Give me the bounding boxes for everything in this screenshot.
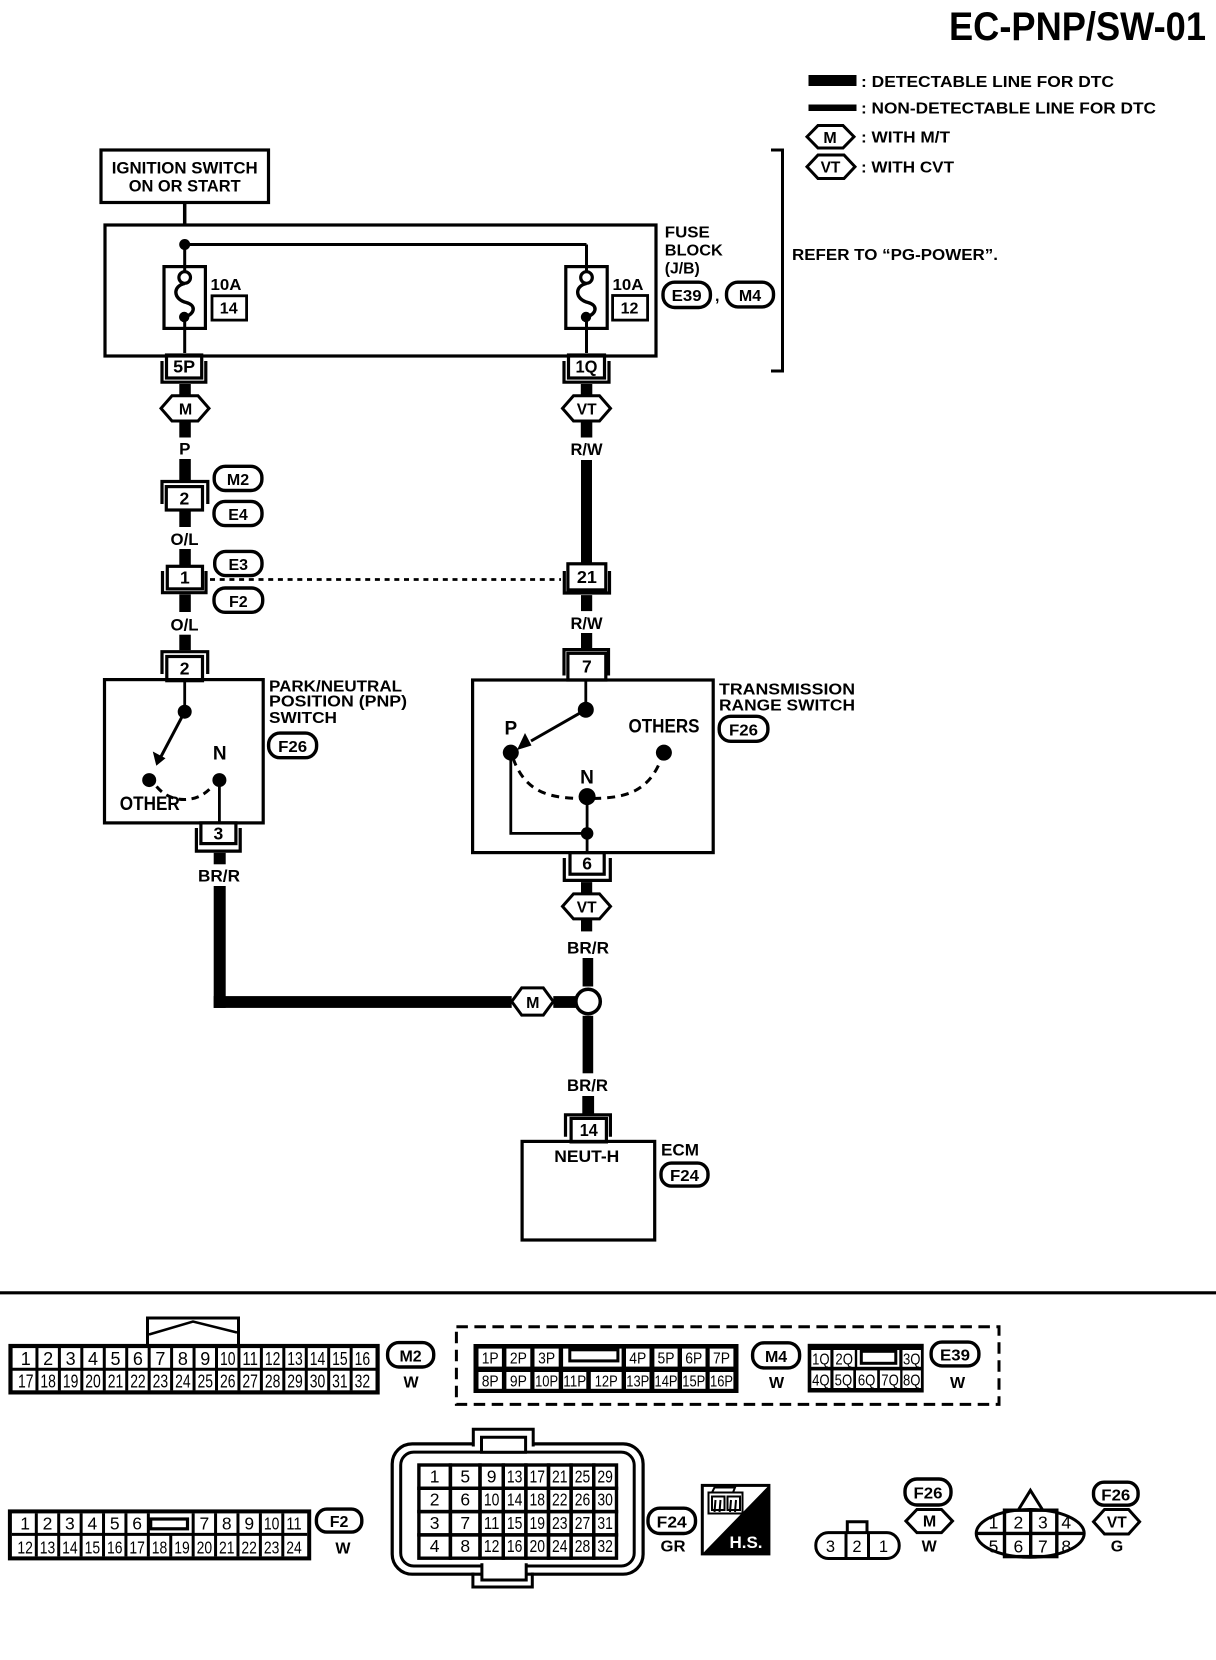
- wire color label R/W: [571, 440, 604, 459]
- svg-text:23: 23: [153, 1372, 169, 1392]
- wire stub below M hexagon: [179, 421, 191, 438]
- TRS contact P: [503, 745, 519, 761]
- connector view F26 (8-pin): keying triangle: [1018, 1490, 1043, 1510]
- svg-text:12P: 12P: [595, 1374, 618, 1391]
- svg-text:19: 19: [529, 1513, 545, 1533]
- connector id F24 oval (ECM): [661, 1163, 708, 1186]
- svg-text:,: ,: [715, 288, 719, 305]
- svg-text:2P: 2P: [510, 1351, 527, 1368]
- TRS contact OTHERS: [656, 745, 672, 761]
- PNP dashed travel arc: [157, 786, 213, 800]
- reference bracket: [771, 150, 783, 371]
- wire: R/W down to connector 21: [581, 460, 592, 564]
- svg-text:IGNITION SWITCH: IGNITION SWITCH: [112, 159, 258, 178]
- fuse 14 value label 10A: [211, 277, 242, 294]
- VT hexagon (with CVT) below connector 6: [563, 894, 611, 919]
- svg-text:R/W: R/W: [571, 614, 604, 633]
- ignition switch box: [101, 150, 269, 203]
- svg-text:11: 11: [242, 1349, 258, 1369]
- connector view F26 (8-pin): body: [976, 1510, 1084, 1558]
- svg-text:16: 16: [107, 1537, 123, 1557]
- svg-text:5: 5: [989, 1537, 999, 1557]
- svg-text:27: 27: [242, 1372, 258, 1392]
- VT hexagon (with CVT) on right wire: [563, 396, 611, 421]
- svg-text:13P: 13P: [626, 1374, 649, 1391]
- dashed link between connector 1 and connector 21: [210, 578, 561, 581]
- svg-text:W: W: [922, 1539, 938, 1556]
- PNP switch arm (arrow): [153, 712, 185, 766]
- fuse number box 12: [613, 296, 648, 321]
- svg-text:27: 27: [575, 1513, 591, 1533]
- svg-text:18: 18: [40, 1372, 56, 1392]
- connector id E4 oval: [214, 501, 262, 525]
- connector 14 (ECM pin): [566, 1115, 611, 1142]
- svg-text:(J/B): (J/B): [665, 261, 700, 278]
- svg-text:4: 4: [1061, 1513, 1071, 1533]
- svg-text:6: 6: [582, 853, 592, 873]
- svg-text:3Q: 3Q: [903, 1351, 921, 1368]
- wire: ignition switch to fuse block: [183, 203, 187, 227]
- svg-text:21: 21: [219, 1537, 235, 1557]
- svg-text:M2: M2: [399, 1349, 421, 1366]
- legend: with CVT text: [861, 160, 954, 177]
- M hexagon (3-pin view): [906, 1510, 953, 1533]
- connector view F24: pin grid: [419, 1465, 617, 1558]
- svg-text:23: 23: [264, 1537, 280, 1557]
- svg-text:32: 32: [597, 1536, 613, 1556]
- svg-text:25: 25: [575, 1466, 591, 1486]
- svg-text:6: 6: [460, 1490, 470, 1510]
- svg-text:15P: 15P: [682, 1374, 705, 1391]
- svg-text:4: 4: [430, 1536, 440, 1556]
- svg-text:8: 8: [460, 1536, 470, 1556]
- svg-text:3: 3: [214, 823, 224, 843]
- wire stub below connector 21: [581, 595, 592, 611]
- connector view F24: top tabs: [473, 1429, 533, 1452]
- svg-text:4: 4: [87, 1513, 97, 1533]
- legend: with M/T text: [861, 130, 950, 147]
- wire: BR/R to splice circle: [583, 958, 594, 987]
- svg-text:2: 2: [43, 1349, 53, 1369]
- svg-text:8: 8: [222, 1513, 232, 1533]
- harness side (H.S.) view icon: [702, 1485, 769, 1554]
- connector id E39 oval: [663, 282, 710, 307]
- svg-text:3: 3: [430, 1513, 440, 1533]
- transmission range switch box: [473, 680, 714, 853]
- svg-text:14: 14: [507, 1490, 523, 1510]
- svg-text:1: 1: [20, 1513, 30, 1533]
- connector view F2: pin numbers: [17, 1513, 302, 1557]
- wire: M hexagon to splice: [553, 996, 576, 1008]
- svg-text:12: 12: [621, 301, 639, 318]
- PNP contact OTHER: [142, 773, 156, 787]
- svg-text:F26: F26: [729, 722, 758, 739]
- svg-text:5: 5: [110, 1513, 120, 1533]
- ECM box: [522, 1141, 655, 1240]
- svg-text:18: 18: [529, 1490, 545, 1510]
- svg-text:1Q: 1Q: [812, 1351, 830, 1368]
- svg-text:EC-PNP/SW-01: EC-PNP/SW-01: [949, 5, 1206, 49]
- connector 1Q (fuse block output): [564, 355, 609, 382]
- wire color label P: [179, 440, 190, 459]
- svg-text:31: 31: [332, 1372, 348, 1392]
- connector 2 (M2/E4): [162, 482, 208, 511]
- svg-text:6: 6: [1014, 1537, 1024, 1557]
- svg-text:3P: 3P: [538, 1351, 555, 1368]
- svg-text:5Q: 5Q: [835, 1372, 853, 1389]
- svg-text:14: 14: [580, 1120, 598, 1140]
- connector view F26 (3-pin): tab: [847, 1522, 867, 1533]
- connector id M2 oval (view): [388, 1343, 434, 1367]
- fuse 14 (10A): [164, 267, 205, 353]
- wire stub below connector 1: [179, 594, 191, 612]
- svg-text:8: 8: [178, 1349, 188, 1369]
- TRS label P: [504, 719, 517, 740]
- svg-text:19: 19: [174, 1537, 190, 1557]
- svg-text:15: 15: [85, 1537, 101, 1557]
- svg-text:7: 7: [460, 1513, 470, 1533]
- svg-text:11: 11: [484, 1513, 500, 1533]
- svg-text:4: 4: [88, 1349, 98, 1369]
- legend: detectable line text: [861, 74, 1114, 91]
- connector id M2 oval: [214, 466, 262, 490]
- connector view M2: pin numbers: [18, 1349, 370, 1392]
- fuse 12 value label 10A: [613, 277, 644, 294]
- svg-text:F26: F26: [1101, 1488, 1130, 1505]
- connector view M4: body: [474, 1344, 739, 1393]
- svg-text:BLOCK: BLOCK: [665, 243, 723, 260]
- connector id F26 oval (TRS): [719, 716, 768, 741]
- svg-text:20: 20: [85, 1372, 101, 1392]
- svg-text:M: M: [179, 402, 192, 419]
- svg-text:FUSE: FUSE: [665, 225, 710, 242]
- connector id F26 oval (PNP): [269, 733, 317, 758]
- svg-text:NEUT-H: NEUT-H: [554, 1147, 619, 1166]
- svg-text:E39: E39: [672, 288, 702, 305]
- svg-text:BR/R: BR/R: [567, 939, 609, 958]
- svg-text:26: 26: [220, 1372, 236, 1392]
- connector F26 color W: [922, 1539, 938, 1556]
- svg-text:13: 13: [40, 1537, 56, 1557]
- M hexagon (with M/T) on left wire: [161, 396, 209, 421]
- PNP internal wire from pin 2: [183, 681, 186, 712]
- svg-text:F26: F26: [278, 739, 307, 756]
- svg-text:10A: 10A: [613, 277, 644, 294]
- fuse 12 (10A): [566, 267, 607, 353]
- svg-text:F24: F24: [657, 1514, 687, 1531]
- connector view F2: pin grid: [10, 1511, 309, 1558]
- refer to PG-POWER note: [792, 247, 998, 264]
- svg-text:O/L: O/L: [171, 616, 199, 635]
- wire stub below connector 3: [214, 853, 226, 865]
- svg-text:VT: VT: [577, 900, 597, 917]
- svg-text:20: 20: [197, 1537, 213, 1557]
- svg-text:E4: E4: [228, 507, 248, 524]
- svg-text:16: 16: [355, 1349, 371, 1369]
- svg-text:VT: VT: [577, 402, 597, 419]
- wire color label O/L: [171, 530, 199, 549]
- connector view M2: pin grid: [11, 1346, 378, 1392]
- wire: O/L to connector 1: [179, 549, 191, 567]
- wire color label BR/R (right): [567, 939, 609, 958]
- connector view F24: pin numbers: [430, 1466, 613, 1556]
- wire: BR/R to connector 14: [582, 1096, 594, 1114]
- wire color label BR/R (left): [198, 867, 240, 886]
- park/neutral position (PNP) switch box: [105, 680, 264, 823]
- splice (open circle junction): [576, 989, 600, 1013]
- svg-text:7: 7: [199, 1513, 209, 1533]
- connector id F2 oval (view): [316, 1509, 361, 1532]
- svg-text:14P: 14P: [655, 1374, 678, 1391]
- svg-text:22: 22: [241, 1537, 257, 1557]
- svg-text:F2: F2: [330, 1514, 349, 1531]
- svg-text:12: 12: [484, 1536, 500, 1556]
- svg-text:F26: F26: [914, 1486, 943, 1503]
- connector view F26 (3-pin): body: [816, 1533, 899, 1559]
- connector F24 color GR: [661, 1539, 686, 1556]
- svg-text:19: 19: [63, 1372, 79, 1392]
- svg-text:24: 24: [175, 1372, 191, 1392]
- svg-text:32: 32: [355, 1372, 371, 1392]
- wire: junction to left fuse: [183, 245, 186, 273]
- svg-text:9: 9: [200, 1349, 210, 1369]
- ECM pin name NEUT-H: [554, 1147, 619, 1166]
- PNP wire N to pin 3: [218, 780, 221, 822]
- svg-text:: WITH M/T: : WITH M/T: [861, 130, 950, 147]
- fuse number box 14: [212, 296, 247, 320]
- TRS junction node: [581, 827, 594, 840]
- svg-text:17: 17: [529, 1466, 545, 1486]
- svg-text:9: 9: [244, 1513, 254, 1533]
- svg-text:10: 10: [220, 1349, 236, 1369]
- svg-text:SWITCH: SWITCH: [269, 710, 337, 727]
- TRS contact N: [579, 788, 596, 805]
- svg-text:GR: GR: [661, 1539, 686, 1556]
- svg-text:OTHER: OTHER: [120, 794, 180, 815]
- wire: R/W to connector 7: [581, 633, 592, 648]
- svg-text:9: 9: [487, 1466, 497, 1486]
- PNP common node: [178, 705, 192, 719]
- svg-text:M: M: [526, 995, 539, 1012]
- connector 7 (TRS pin 7): [564, 650, 609, 680]
- svg-text:7P: 7P: [713, 1351, 730, 1368]
- svg-text:G: G: [1111, 1539, 1123, 1556]
- connector M2 color W: [403, 1375, 419, 1392]
- connector 5P (fuse block output): [162, 355, 206, 382]
- svg-text:W: W: [769, 1375, 785, 1392]
- svg-text:6: 6: [133, 1349, 143, 1369]
- svg-text:21: 21: [577, 567, 597, 587]
- M hexagon (with M/T) inline on splice wire: [512, 988, 554, 1015]
- svg-text:14: 14: [62, 1537, 78, 1557]
- legend: VT hexagon (with CVT): [807, 155, 855, 179]
- wire color label O/L (2): [171, 616, 199, 635]
- svg-text:8Q: 8Q: [903, 1372, 921, 1389]
- connector view M4: pin cells: [479, 1349, 734, 1391]
- wire: P to connector 2: [179, 459, 191, 481]
- svg-text:1P: 1P: [482, 1351, 499, 1368]
- svg-text:: WITH CVT: : WITH CVT: [861, 160, 954, 177]
- wire stub below connector 2: [179, 510, 191, 527]
- connector F2 color W: [335, 1541, 351, 1558]
- svg-text:30: 30: [597, 1490, 613, 1510]
- wire color label R/W (2): [571, 614, 604, 633]
- svg-text:E3: E3: [229, 557, 249, 574]
- svg-text:1: 1: [989, 1513, 999, 1533]
- svg-text:OTHERS: OTHERS: [629, 716, 700, 737]
- legend: M hexagon (with M/T): [807, 126, 854, 149]
- svg-text:3: 3: [66, 1349, 76, 1369]
- svg-text:ON OR START: ON OR START: [129, 177, 242, 196]
- svg-text:W: W: [403, 1375, 419, 1392]
- connector id E39 oval (view): [931, 1342, 979, 1366]
- svg-text:12: 12: [17, 1537, 33, 1557]
- svg-text:1: 1: [21, 1349, 31, 1369]
- connector id F2 oval: [214, 588, 263, 612]
- svg-text:TRANSMISSION: TRANSMISSION: [719, 682, 855, 699]
- svg-text:20: 20: [529, 1536, 545, 1556]
- svg-text:6Q: 6Q: [858, 1372, 876, 1389]
- TRS label OTHERS: [629, 716, 700, 737]
- svg-text:: NON-DETECTABLE LINE FOR DTC: : NON-DETECTABLE LINE FOR DTC: [861, 101, 1156, 118]
- legend: non-detectable line text: [861, 101, 1156, 118]
- svg-text:POSITION (PNP): POSITION (PNP): [269, 694, 407, 711]
- connector id F26 oval (8-pin view): [1094, 1482, 1139, 1505]
- svg-text:N: N: [580, 768, 594, 789]
- svg-text:25: 25: [198, 1372, 214, 1392]
- svg-text:R/W: R/W: [571, 440, 604, 459]
- svg-text:M4: M4: [739, 288, 761, 305]
- svg-text:13: 13: [507, 1466, 523, 1486]
- svg-text:P: P: [179, 440, 190, 459]
- connector view F26 (3-pin): pin numbers: [826, 1538, 888, 1556]
- svg-text:VT: VT: [821, 160, 841, 177]
- svg-text:M4: M4: [765, 1349, 787, 1366]
- svg-text:21: 21: [108, 1372, 124, 1392]
- connector view E39: pin cells: [811, 1350, 921, 1389]
- svg-text:22: 22: [130, 1372, 146, 1392]
- svg-text:O/L: O/L: [171, 530, 199, 549]
- connector id M4 oval (view): [753, 1343, 800, 1368]
- svg-text:: DETECTABLE LINE FOR DTC: : DETECTABLE LINE FOR DTC: [861, 74, 1114, 91]
- svg-text:11P: 11P: [563, 1374, 586, 1391]
- svg-text:7Q: 7Q: [881, 1372, 899, 1389]
- svg-text:10: 10: [264, 1513, 280, 1533]
- PNP switch name text: [269, 679, 407, 728]
- svg-text:17: 17: [129, 1537, 145, 1557]
- svg-text:2: 2: [43, 1513, 53, 1533]
- svg-text:2: 2: [180, 659, 190, 679]
- svg-text:10P: 10P: [535, 1374, 558, 1391]
- TRS internal wire from pin 7: [584, 681, 587, 710]
- svg-text:16: 16: [507, 1536, 523, 1556]
- TRS dashed travel arc: [513, 758, 662, 799]
- svg-text:4P: 4P: [629, 1351, 646, 1368]
- svg-text:BR/R: BR/R: [198, 867, 240, 886]
- svg-text:31: 31: [597, 1513, 613, 1533]
- TRS switch arm (arrow to P): [517, 710, 586, 750]
- connector view E39: body: [808, 1344, 924, 1393]
- svg-text:5P: 5P: [658, 1351, 675, 1368]
- connector view F24: outer shell: [392, 1444, 643, 1574]
- svg-text:29: 29: [287, 1372, 303, 1392]
- svg-text:11: 11: [286, 1513, 302, 1533]
- wire stub below 5P: [179, 384, 191, 397]
- connector id F26 oval (3-pin view): [905, 1479, 951, 1505]
- svg-text:10: 10: [484, 1490, 500, 1510]
- svg-text:F24: F24: [670, 1168, 699, 1185]
- svg-text:9P: 9P: [510, 1374, 527, 1391]
- svg-text:BR/R: BR/R: [567, 1076, 608, 1095]
- svg-text:6P: 6P: [685, 1351, 702, 1368]
- svg-text:21: 21: [552, 1466, 568, 1486]
- svg-text:4Q: 4Q: [812, 1372, 830, 1389]
- svg-text:VT: VT: [1107, 1515, 1127, 1532]
- fuse block label: [665, 225, 723, 278]
- wire: O/L to connector 2 of PNP switch: [179, 635, 191, 651]
- svg-text:1: 1: [879, 1538, 888, 1556]
- PNP label N: [213, 744, 227, 765]
- svg-text:14: 14: [220, 301, 238, 318]
- PNP contact N: [212, 773, 226, 787]
- svg-text:F2: F2: [229, 594, 248, 611]
- svg-text:5: 5: [460, 1466, 470, 1486]
- connector id E3 oval: [215, 551, 262, 575]
- svg-text:5P: 5P: [173, 357, 195, 377]
- TRS wire P to junction: [511, 753, 587, 834]
- connector 1 (E3/F2): [163, 566, 207, 592]
- connector 3 (PNP output): [196, 823, 240, 851]
- wire stub below VT hexagon (2): [581, 919, 592, 932]
- TRS wire N to pin 6: [586, 797, 589, 852]
- ECM label: [661, 1141, 699, 1160]
- svg-text:23: 23: [552, 1513, 568, 1533]
- connector view F24: bottom tabs: [473, 1563, 532, 1587]
- junction node in fuse block: [179, 239, 190, 250]
- svg-text:REFER TO “PG-POWER”.: REFER TO “PG-POWER”.: [792, 247, 998, 264]
- VT hexagon (8-pin view): [1094, 1510, 1140, 1535]
- TRS common node: [578, 702, 594, 718]
- svg-text:1: 1: [180, 568, 190, 588]
- svg-text:18: 18: [152, 1537, 168, 1557]
- svg-text:N: N: [213, 744, 227, 765]
- comma separator: [715, 288, 719, 305]
- svg-text:16P: 16P: [710, 1374, 733, 1391]
- svg-text:7: 7: [1038, 1537, 1048, 1557]
- TRS label N: [580, 768, 594, 789]
- svg-text:M: M: [923, 1514, 936, 1531]
- svg-text:22: 22: [552, 1490, 568, 1510]
- connector E39 color W: [950, 1375, 966, 1392]
- wire: junction to right fuse: [185, 245, 587, 273]
- svg-text:E39: E39: [940, 1348, 970, 1365]
- svg-text:14: 14: [310, 1349, 326, 1369]
- svg-text:28: 28: [265, 1372, 281, 1392]
- wire stub below 1Q: [581, 384, 593, 397]
- connector id F24 oval (view): [648, 1508, 696, 1533]
- svg-text:8: 8: [1061, 1537, 1071, 1557]
- PNP label OTHER: [120, 794, 180, 815]
- fuse block (J/B) box: [105, 225, 656, 356]
- svg-text:24: 24: [286, 1537, 302, 1557]
- svg-text:RANGE SWITCH: RANGE SWITCH: [719, 698, 855, 715]
- svg-text:29: 29: [597, 1466, 613, 1486]
- connector F26 color G: [1111, 1539, 1123, 1556]
- svg-text:30: 30: [310, 1372, 326, 1392]
- svg-text:M: M: [823, 130, 836, 147]
- svg-text:26: 26: [575, 1490, 591, 1510]
- svg-text:1: 1: [430, 1466, 440, 1486]
